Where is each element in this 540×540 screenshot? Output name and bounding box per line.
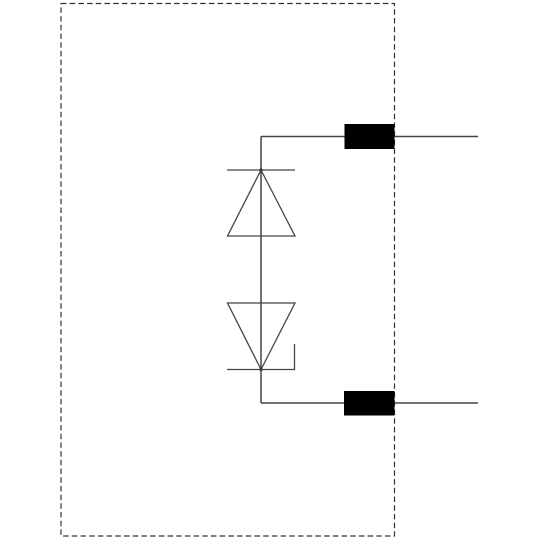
dashed component outline <box>61 4 395 537</box>
wire: center vertical <box>260 170 262 370</box>
node A (junction at D1 cathode) <box>259 168 262 171</box>
node B (junction at D2 cathode) <box>259 368 262 371</box>
diode D2 (cathode down, bent bar) <box>227 303 295 370</box>
pad P1 (top terminal) <box>345 124 395 149</box>
wire: bottom vertical drop <box>260 370 262 404</box>
wire: bottom horizontal (pin 2 net) <box>261 402 478 404</box>
wire: top vertical drop <box>260 137 262 171</box>
wire: top horizontal (pin 1 net) <box>261 136 478 138</box>
diode D1 (cathode up) <box>227 170 295 236</box>
pad P2 (bottom terminal) <box>344 391 395 416</box>
